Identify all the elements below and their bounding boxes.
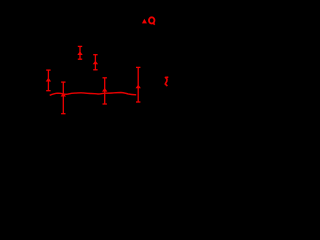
data point 2 marker — [93, 61, 98, 65]
legend marker triangle — [142, 19, 147, 24]
data point 1 error bar (x=80) — [78, 46, 82, 59]
data point 3 error bar (x=48.4) — [46, 70, 50, 91]
data point 1 marker — [77, 51, 82, 55]
data point 5 marker — [102, 88, 107, 92]
data point 5 error bar (x=104.7) — [103, 78, 107, 104]
data point 4 marker — [61, 93, 66, 97]
small glyph right of curve — [165, 77, 168, 86]
data point 3 marker — [46, 78, 51, 82]
data point 6 marker — [136, 85, 141, 89]
data point 4 error bar (x=63.3) — [61, 82, 65, 114]
data point 6 error bar (x=138.2) — [136, 67, 140, 102]
legend label Q — [149, 17, 155, 24]
data point 2 error bar (x=95.4) — [93, 55, 97, 70]
fit curve — [50, 93, 137, 96]
